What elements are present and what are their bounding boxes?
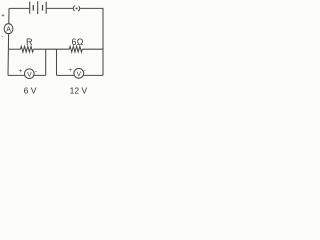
svg-text:6: 6: [71, 37, 76, 47]
svg-text:A: A: [6, 26, 11, 33]
svg-text:V: V: [77, 71, 82, 78]
svg-text:-: -: [35, 68, 37, 75]
svg-text:R: R: [26, 37, 33, 47]
svg-text:+: +: [69, 68, 73, 74]
svg-text:Ω: Ω: [77, 37, 84, 47]
svg-text:-: -: [1, 34, 3, 40]
svg-text:-: -: [84, 67, 86, 74]
svg-text:12 V: 12 V: [70, 86, 88, 96]
svg-text:6 V: 6 V: [24, 86, 37, 96]
svg-text:V: V: [27, 71, 32, 78]
svg-text:+: +: [1, 13, 5, 19]
svg-text:+: +: [19, 69, 23, 75]
